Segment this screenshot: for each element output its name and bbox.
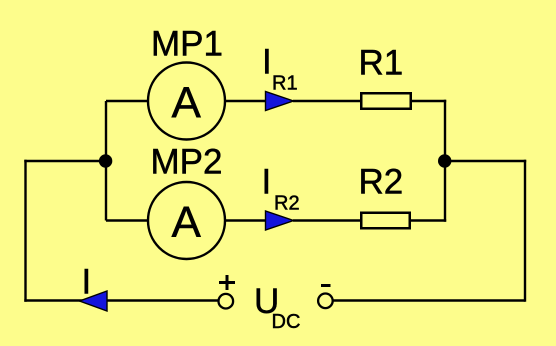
current arrow IR2 bbox=[266, 211, 294, 230]
minus terminal circle bbox=[318, 294, 333, 309]
wire: right inner vertical bbox=[444, 100, 446, 222]
svg-text:DC: DC bbox=[272, 311, 301, 333]
wire: top branch stub to ammeter MP1 bbox=[106, 100, 149, 102]
plus terminal circle bbox=[219, 294, 234, 309]
svg-text:I: I bbox=[82, 263, 92, 302]
wire: outer right vertical bbox=[524, 160, 526, 302]
svg-text:MP1: MP1 bbox=[151, 25, 223, 64]
svg-text:I: I bbox=[262, 43, 272, 82]
wire: left node horizontal bbox=[24, 160, 106, 162]
wire: resistor R1 to right corner bbox=[412, 100, 446, 102]
wire: inner-left vertical (top branch to bottom branch) bbox=[105, 101, 107, 221]
wire: bottom right to minus terminal bbox=[334, 299, 526, 301]
svg-text:R2: R2 bbox=[359, 163, 404, 202]
resistor R2 bbox=[361, 213, 410, 229]
wire: outer left vertical bbox=[24, 160, 26, 302]
wire: right node to outer right bbox=[445, 160, 526, 162]
wire: bottom branch stub to ammeter MP2 bbox=[106, 219, 149, 221]
ammeter MP1 bbox=[148, 63, 225, 140]
minus sign bbox=[321, 284, 331, 287]
current arrow I (bottom, pointing left) bbox=[80, 291, 108, 311]
svg-text:A: A bbox=[172, 198, 202, 247]
wire: plus terminal to bottom left bbox=[24, 299, 219, 301]
wire: MP1 to arrow IR1 bbox=[225, 100, 266, 102]
svg-text:R2: R2 bbox=[274, 193, 300, 215]
resistor R1 bbox=[361, 93, 411, 109]
svg-text:R1: R1 bbox=[272, 73, 298, 95]
ammeter MP2 bbox=[148, 182, 225, 259]
node right junction bbox=[438, 154, 451, 167]
svg-text:R1: R1 bbox=[359, 44, 404, 83]
svg-text:I: I bbox=[262, 163, 272, 202]
node left junction bbox=[99, 154, 112, 167]
current arrow IR1 bbox=[266, 92, 294, 111]
svg-text:A: A bbox=[172, 79, 202, 128]
plus sign bbox=[219, 275, 235, 290]
wire: arrow IR1 to resistor R1 bbox=[293, 100, 361, 102]
svg-text:MP2: MP2 bbox=[151, 143, 223, 182]
wire: arrow IR2 to resistor R2 bbox=[293, 219, 361, 221]
wire: resistor R2 to right corner bbox=[411, 219, 446, 221]
wire: MP2 to arrow IR2 bbox=[225, 219, 266, 221]
